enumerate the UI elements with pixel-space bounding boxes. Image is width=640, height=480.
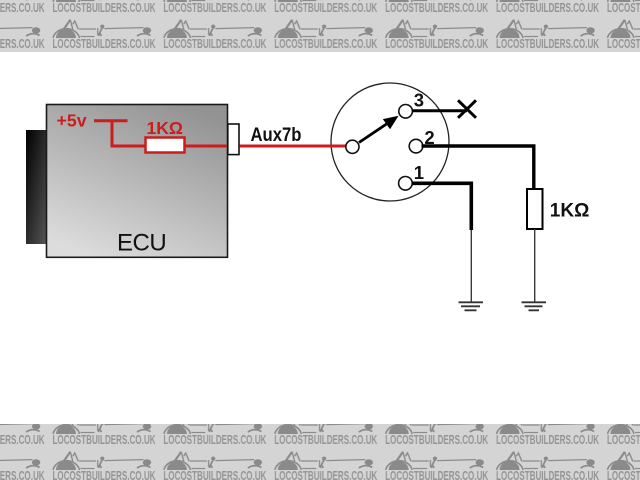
switch wiper arrow xyxy=(359,123,388,143)
svg-text:Aux7b: Aux7b xyxy=(251,125,302,146)
watermark banner bottom xyxy=(0,424,640,480)
svg-text:1KΩ: 1KΩ xyxy=(550,200,590,221)
ground G1 xyxy=(459,302,484,310)
svg-text:ECU: ECU xyxy=(117,230,166,257)
svg-text:+5v: +5v xyxy=(57,111,87,131)
svg-text:1: 1 xyxy=(414,162,424,183)
wire terminal 1 to ground (thin) xyxy=(470,230,472,302)
wire terminal 3 to open end xyxy=(412,109,467,112)
wire terminal 1 down xyxy=(412,183,471,230)
wire terminal 2 to R2 xyxy=(422,146,534,190)
ECU box U1 xyxy=(47,105,228,258)
rotary switch body xyxy=(331,83,449,201)
switch common terminal xyxy=(346,140,359,153)
terminal 3 xyxy=(399,105,413,119)
svg-text:1KΩ: 1KΩ xyxy=(147,118,183,138)
terminal 2 xyxy=(409,139,423,153)
connector pin Aux7b xyxy=(228,124,239,155)
ECU mounting tab xyxy=(26,130,47,244)
wire +5V tap to R1 xyxy=(111,145,148,148)
wire R2 to ground (thin) xyxy=(534,229,536,302)
resistor R1 xyxy=(146,138,185,153)
terminal 1 xyxy=(399,177,413,191)
ground G2 xyxy=(522,302,547,310)
wire Aux7b to switch common (red) xyxy=(240,145,350,148)
watermark banner top xyxy=(0,0,640,52)
wire R1 to connector xyxy=(185,145,230,148)
+5V rail tap xyxy=(94,120,128,147)
resistor R2 xyxy=(527,189,543,229)
no-connect X mark xyxy=(458,100,476,118)
svg-text:3: 3 xyxy=(414,90,424,111)
